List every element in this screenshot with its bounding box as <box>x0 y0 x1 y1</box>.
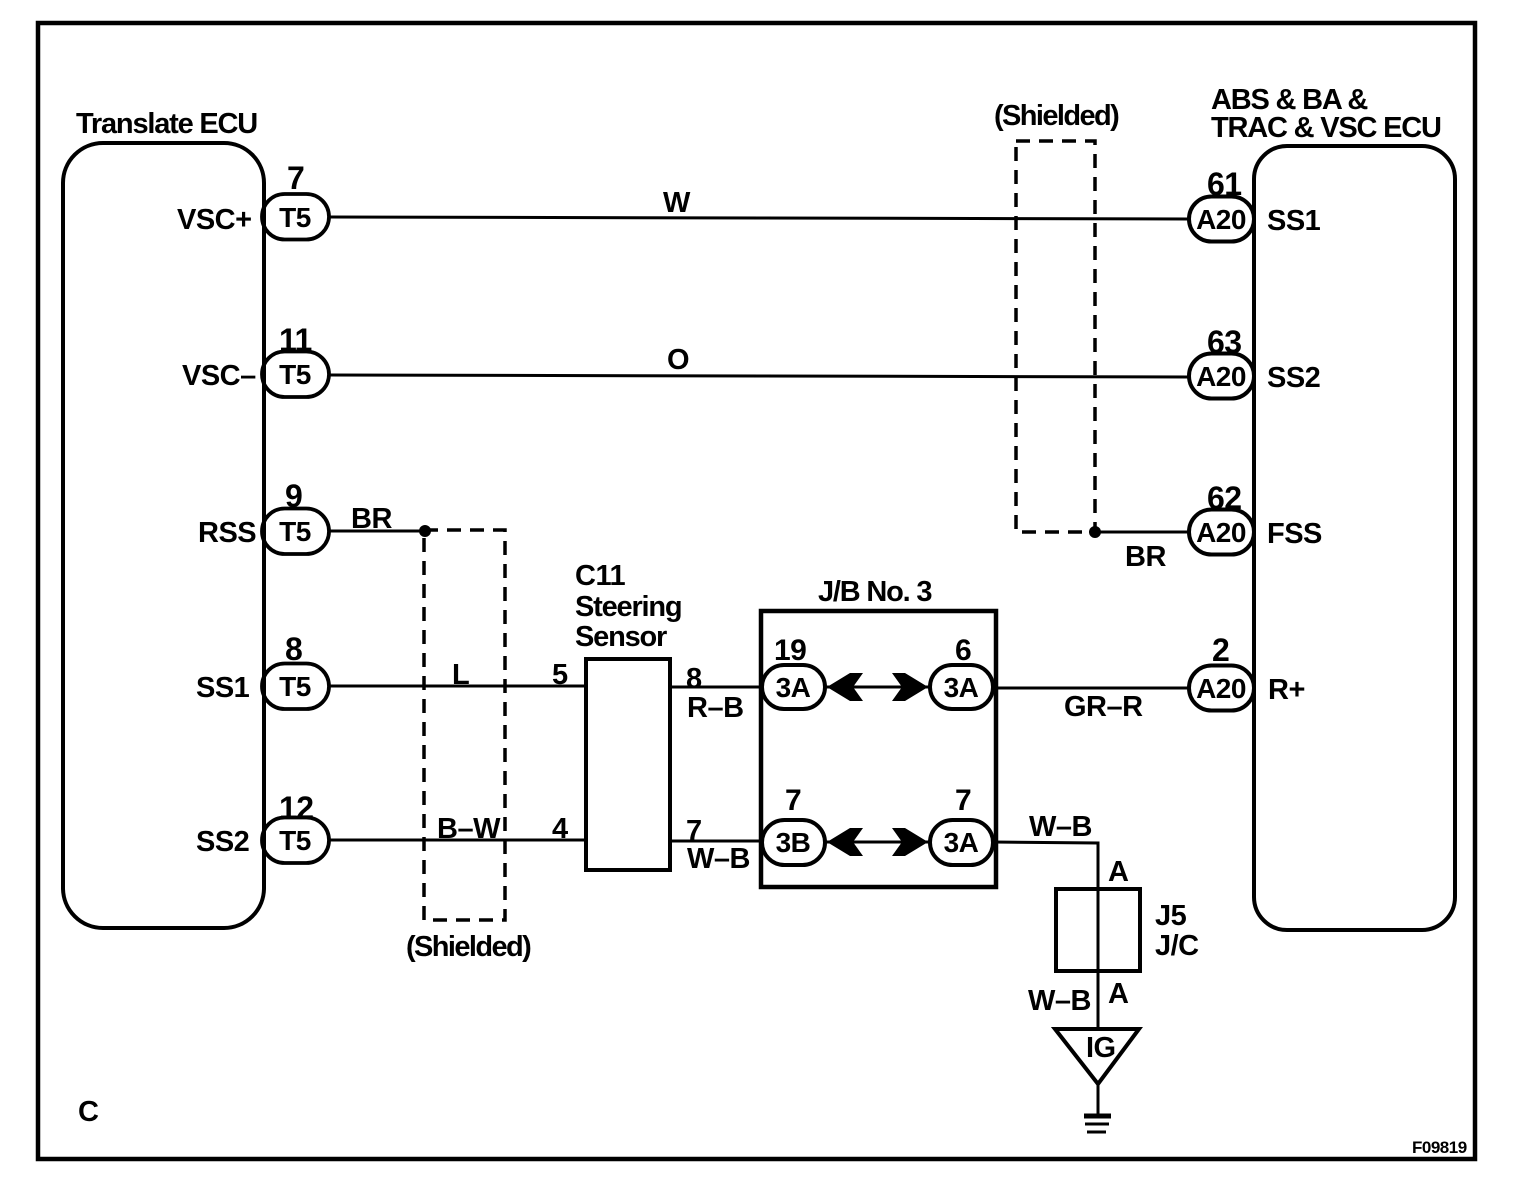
svg-text:4: 4 <box>552 813 568 845</box>
svg-text:63: 63 <box>1207 324 1242 360</box>
svg-text:VSC–: VSC– <box>182 360 256 392</box>
svg-text:3A: 3A <box>944 827 979 858</box>
junction connector J5 J/C <box>1056 889 1140 971</box>
svg-text:A20: A20 <box>1196 204 1246 235</box>
svg-text:12: 12 <box>279 790 314 826</box>
connector A20 pin 62 (FSS) <box>1189 510 1254 555</box>
wire GR-R : J/B 3A-6 to A20-2 <box>995 687 1189 690</box>
svg-text:SS1: SS1 <box>1267 205 1321 237</box>
ECU block: ABS & BA & TRAC & VSC ECU <box>1254 146 1455 930</box>
svg-text:T5: T5 <box>279 825 311 856</box>
power symbol IG triangle <box>1055 1029 1139 1084</box>
svg-text:C: C <box>78 1096 99 1128</box>
wire W : T5-7 to A20-61 <box>329 217 1189 219</box>
svg-text:J/C: J/C <box>1155 930 1199 962</box>
svg-text:W–B: W–B <box>1029 811 1092 843</box>
svg-text:61: 61 <box>1207 166 1242 202</box>
svg-text:RSS: RSS <box>198 517 256 549</box>
svg-text:T5: T5 <box>279 359 311 390</box>
svg-text:11: 11 <box>279 322 312 358</box>
wire R-B : C11 pin 8 to J/B 3A-19 <box>670 686 762 689</box>
connector 3A pin 19 <box>762 665 825 709</box>
svg-text:(Shielded): (Shielded) <box>994 100 1119 132</box>
svg-text:J/B No. 3: J/B No. 3 <box>818 576 932 608</box>
svg-text:F09819: F09819 <box>1412 1138 1467 1157</box>
svg-text:SS2: SS2 <box>1267 362 1320 394</box>
wire B-W : T5-12 to C11 pin 4 <box>329 839 586 842</box>
svg-text:C11: C11 <box>575 560 625 592</box>
svg-text:6: 6 <box>955 634 971 667</box>
connector 3A pin 6 <box>930 665 993 709</box>
svg-text:O: O <box>667 344 689 376</box>
svg-text:R+: R+ <box>1268 674 1305 706</box>
connector A20 pin 61 (SS1) <box>1189 197 1254 242</box>
svg-text:5: 5 <box>552 659 568 691</box>
wire BR : T5-9 to shield junction <box>329 530 425 533</box>
connector T5 pin 8 (SS1) <box>262 664 329 710</box>
svg-text:VSC+: VSC+ <box>177 204 252 236</box>
svg-text:T5: T5 <box>279 671 311 702</box>
svg-text:7: 7 <box>955 784 971 817</box>
svg-text:62: 62 <box>1207 480 1242 516</box>
wire W-B : C11 pin 7 to J/B 3B-7 <box>670 840 762 843</box>
connector A20 pin 2 (R+) <box>1189 666 1254 711</box>
svg-text:2: 2 <box>1212 632 1229 668</box>
svg-text:3A: 3A <box>944 672 979 703</box>
svg-text:7: 7 <box>287 160 304 196</box>
svg-text:(Shielded): (Shielded) <box>406 931 531 963</box>
svg-text:BR: BR <box>351 503 392 535</box>
connector A20 pin 63 (SS2) <box>1189 354 1254 399</box>
svg-text:3A: 3A <box>776 672 811 703</box>
svg-text:8: 8 <box>285 631 302 667</box>
svg-text:7: 7 <box>785 784 801 817</box>
svg-text:A: A <box>1108 978 1129 1010</box>
wire BR : shield junction to A20-62 <box>1095 531 1189 534</box>
svg-text:L: L <box>452 659 469 691</box>
bus link arrows top <box>825 673 930 701</box>
svg-text:Steering: Steering <box>575 591 681 623</box>
svg-text:19: 19 <box>774 634 806 667</box>
svg-text:W–B: W–B <box>687 843 750 875</box>
wire L : T5-8 to C11 pin 5 <box>329 685 586 688</box>
svg-text:9: 9 <box>285 478 302 514</box>
svg-text:T5: T5 <box>279 202 311 233</box>
svg-text:3B: 3B <box>776 827 811 858</box>
svg-text:W–B: W–B <box>1028 985 1091 1017</box>
svg-text:TRAC & VSC ECU: TRAC & VSC ECU <box>1211 112 1441 144</box>
svg-text:A20: A20 <box>1196 517 1246 548</box>
svg-text:8: 8 <box>686 663 702 695</box>
svg-text:BR: BR <box>1125 541 1166 573</box>
junction dot (top shield) <box>1089 526 1101 538</box>
ground <box>1084 1084 1111 1132</box>
svg-text:A20: A20 <box>1196 361 1246 392</box>
junction block J/B No. 3 <box>761 611 996 887</box>
svg-text:J5: J5 <box>1155 900 1187 932</box>
svg-text:A: A <box>1108 856 1129 888</box>
svg-text:W: W <box>663 187 691 219</box>
connector 3A pin 7 <box>930 820 993 865</box>
bus link arrows bottom <box>825 828 930 856</box>
svg-text:B–W: B–W <box>437 813 501 845</box>
svg-text:T5: T5 <box>279 516 311 547</box>
shield box top (dashed) <box>1016 141 1095 532</box>
junction dot (left shield) <box>419 525 431 537</box>
svg-text:A20: A20 <box>1196 673 1246 704</box>
svg-text:FSS: FSS <box>1267 518 1322 550</box>
component C11 steering sensor <box>586 659 670 870</box>
svg-text:R–B: R–B <box>687 692 744 724</box>
svg-text:GR–R: GR–R <box>1064 691 1143 723</box>
wire W-B : J/B 3A-7 to J5 <box>993 842 1098 1029</box>
connector T5 pin 11 (VSC-) <box>262 352 329 398</box>
svg-text:SS1: SS1 <box>196 672 250 704</box>
wire O : T5-11 to A20-63 <box>329 375 1189 377</box>
shield box left (dashed) <box>424 530 505 920</box>
svg-text:IG: IG <box>1086 1032 1116 1064</box>
connector 3B pin 7 <box>762 820 825 865</box>
connector T5 pin 7 (VSC+) <box>262 194 329 240</box>
svg-text:Sensor: Sensor <box>575 621 667 653</box>
ECU block: Translate ECU <box>63 143 264 928</box>
svg-text:Translate ECU: Translate ECU <box>76 108 257 140</box>
connector T5 pin 9 (RSS) <box>262 509 329 555</box>
svg-text:SS2: SS2 <box>196 826 249 858</box>
connector T5 pin 12 (SS2) <box>262 818 329 864</box>
